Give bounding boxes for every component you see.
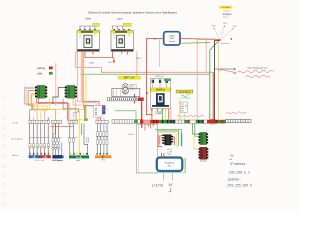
relay K1 body — [162, 134, 173, 145]
wire long salmon feeder (y72.3) — [76, 52, 213, 73]
fan distribution point — [218, 39, 220, 41]
aux terminal box — [181, 102, 188, 112]
svg-text:255. 255. 255. 0: 255. 255. 255. 0 — [226, 184, 252, 188]
gateway (blue rounded, bottom) — [157, 158, 183, 172]
wire red mid to group4 — [84, 101, 99, 119]
svg-text:gelb: gelb — [76, 160, 80, 162]
busbar BB1 (battery minus) — [107, 98, 136, 101]
svg-text:2x2,5qmm: 2x2,5qmm — [52, 160, 62, 162]
label yellow (battery monitor) — [176, 90, 193, 93]
main DC busbar red node — [140, 119, 143, 123]
wire yellow from shunt — [179, 99, 181, 121]
svg-text:(+12V): (+12V) — [152, 183, 164, 187]
main DC busbar right white section — [226, 119, 252, 122]
wire solar input bus — [79, 26, 99, 29]
label tag mains fuse (yellow) — [123, 23, 131, 26]
remote panel (blue rounded, top) — [164, 32, 180, 45]
svg-text:Masse: Masse — [12, 155, 19, 157]
wire dashed to busbar — [184, 112, 186, 120]
wire yellow vertical x86 — [85, 74, 87, 108]
inverter U3 (MultiPlus) — [150, 79, 170, 109]
svg-text:Steckdosen: Steckdosen — [221, 42, 230, 45]
svg-text:KL 15 gesch.: KL 15 gesch. — [11, 138, 23, 140]
wire red pair into gateway top — [162, 153, 164, 158]
wire blue drop group2 — [61, 142, 63, 155]
wire red loops K1 — [158, 134, 174, 147]
wire salmon AC feed — [197, 39, 206, 120]
svg-text:BATT 12V: BATT 12V — [124, 77, 135, 80]
main DC busbar light red section — [143, 120, 150, 123]
fuse row F1 (group1) — [29, 143, 50, 148]
wire black to shunt — [85, 106, 94, 120]
wire salmon pair mid — [81, 52, 84, 102]
wire red battery to busbar — [134, 94, 136, 104]
label tag solar fuse (yellow) — [93, 23, 100, 26]
svg-text:Subnet :: Subnet : — [228, 178, 241, 182]
fuse row F2 (group2) — [52, 138, 60, 149]
charger U2 terminals — [113, 29, 130, 31]
wire blue K1 — [181, 134, 183, 147]
terminal strip S4 (orange) — [95, 153, 111, 162]
wire yellow to X4 — [194, 136, 199, 149]
thin rail row — [29, 137, 50, 139]
svg-text:KL 30: KL 30 — [12, 122, 18, 124]
wire yellow loop K1 — [158, 133, 176, 148]
svg-text:230V out: 230V out — [155, 75, 163, 78]
connector X2 (green) — [65, 85, 77, 98]
node green on busbar — [134, 120, 138, 123]
connector X3 (green, right) — [199, 132, 209, 144]
wire gray staircase from X2 — [63, 99, 78, 121]
terminal row TR2 — [52, 120, 62, 123]
svg-text:26 polig: 26 polig — [200, 161, 206, 163]
wire green under gateway — [137, 172, 185, 174]
wire red stubs below busbar — [145, 124, 153, 131]
main DC busbar mixed section — [160, 119, 226, 123]
fuse rows F4 (group4) — [96, 132, 108, 145]
terminal strip S1 (blue/red) — [29, 153, 51, 162]
svg-text:Masse: Masse — [76, 157, 83, 159]
wire black branch arrow — [215, 68, 236, 70]
wire salmon from charger U2 to battery label — [136, 51, 138, 76]
handwriting tag top right (yellow) — [219, 6, 232, 9]
wire salmon vertical x55.5 — [55, 63, 57, 106]
wire green loop K1 — [155, 129, 181, 146]
svg-text:Multi: Multi — [170, 37, 175, 40]
wire blue group4 — [103, 123, 105, 155]
wire salmon riser to fan — [206, 39, 218, 72]
charger U1 terminals — [79, 29, 96, 31]
handwriting arrow — [169, 188, 171, 193]
svg-text:230V: 230V — [153, 39, 158, 41]
wire salmon right of U3 — [170, 109, 172, 120]
cabinet outline box — [137, 124, 158, 173]
wires group3 verticals — [70, 123, 88, 155]
svg-text:WoWa: WoWa — [128, 134, 135, 136]
shunt interface box (white) — [94, 106, 102, 117]
wire salmon loop (connector X1 staircase) — [24, 87, 44, 117]
charger U2 (Land 230V) — [111, 31, 133, 55]
wire green sloped from panel area — [181, 42, 210, 45]
wire long green LiMa line (y74) — [80, 73, 210, 75]
svg-text:Smart Shunt: Smart Shunt — [179, 91, 191, 94]
wire green pair to X3 — [193, 123, 200, 136]
wires group1 tops colored — [29, 118, 31, 121]
terminal row TR1 — [29, 120, 49, 123]
busbar BB1 red segment — [138, 98, 144, 101]
svg-text:Schema für autarke Stromversor: Schema für autarke Stromversorgung / geä… — [88, 11, 177, 14]
wire green shunt link — [115, 111, 136, 120]
svg-text:Digital: Digital — [169, 35, 175, 38]
node green tap — [84, 119, 88, 121]
handwriting Pi notes — [226, 154, 252, 187]
svg-text:Plus: Plus — [102, 160, 106, 162]
svg-text:4 5 6 . 2 m: 4 5 6 . 2 m — [35, 160, 44, 162]
wire yellow to fan — [218, 41, 219, 120]
battery label (yellow) — [118, 76, 141, 79]
svg-text:Kabel bisherige Länge 1,5 m: Kabel bisherige Länge 1,5 m — [248, 68, 268, 70]
handwriting red above busbar — [177, 115, 204, 117]
connector X1 (green) — [35, 85, 47, 98]
wire orange vertical from U1 — [84, 52, 86, 120]
fuse below U3 — [156, 111, 162, 114]
wire yellow jumper group3 — [70, 119, 86, 121]
wire gray loop X1 — [28, 91, 35, 118]
terminal row TR3 — [68, 120, 77, 123]
wire stub arrow right — [113, 58, 115, 63]
wire yellow loop X1 — [31, 94, 47, 118]
wire yellow drop x84.7 — [84, 110, 86, 119]
wire red to remote panel — [146, 38, 218, 41]
svg-text:Control: Control — [169, 40, 176, 43]
wire red bold busbar link — [141, 101, 143, 128]
wires below U3 — [151, 109, 153, 111]
wire yellow group3 — [78, 120, 80, 155]
handwriting green scribble — [181, 94, 190, 98]
svg-text:3x1,5: 3x1,5 — [223, 16, 227, 18]
terminal strip S2 (navy) — [52, 155, 64, 162]
wire orange loop X1 — [32, 95, 56, 138]
fuse row F3 (group3) — [69, 138, 89, 142]
svg-text:Land: Land — [117, 17, 123, 21]
wire mains input bus — [112, 26, 132, 29]
wire green right of blue box — [184, 158, 186, 173]
svg-text:Pi: Pi — [231, 154, 234, 158]
svg-text:2m: 2m — [108, 62, 111, 64]
main DC busbar red section — [150, 120, 159, 124]
connector X4 (dark red, right) — [199, 147, 209, 159]
handwriting red note (zur Bord-Elektrik) — [218, 70, 274, 78]
wire gray drop from panel — [158, 39, 160, 66]
svg-text:IP adress :: IP adress : — [230, 162, 247, 166]
wires below gateway — [164, 171, 173, 181]
svg-text:Raspberry: Raspberry — [165, 162, 174, 164]
svg-text:LiMa: LiMa — [37, 73, 43, 76]
main DC busbar (left white section) — [112, 120, 141, 124]
wire red battery feed — [146, 39, 152, 115]
wire green to fan — [210, 41, 219, 120]
dc-dc converter (purple) — [102, 105, 105, 114]
wire charger outputs red interconnect — [85, 51, 122, 57]
svg-text:192.168. x. x: 192.168. x. x — [229, 171, 250, 175]
wires group4 verticals — [97, 123, 107, 155]
terminal row TR4 — [96, 120, 108, 123]
svg-text:Ladung: Ladung — [37, 67, 46, 70]
charger U1 (Solar) — [77, 31, 99, 55]
svg-text:MultiPlus: MultiPlus — [156, 89, 166, 92]
wires group2 verticals — [53, 123, 59, 155]
svg-text:16´: 16´ — [168, 183, 174, 187]
wire yellow drop X1 — [50, 98, 85, 120]
wires group1 verticals — [30, 123, 49, 155]
wire red link under terminal row — [51, 126, 74, 128]
svg-text:wifi: wifi — [229, 159, 233, 161]
wire green into group3 — [81, 123, 83, 135]
handwriting red right of busbar — [226, 112, 247, 114]
terminal strip S3 (green) — [69, 153, 89, 162]
svg-text:2,5m: 2,5m — [89, 62, 94, 64]
svg-text:FI 30mA: FI 30mA — [222, 6, 230, 9]
fan rays (loads 230V) — [214, 25, 234, 40]
binder holes (decorative) — [2, 77, 5, 207]
wire red pair X1 to group3 (Ladung) — [37, 98, 69, 120]
battery B1 symbol — [112, 84, 140, 97]
svg-text:Solar: Solar — [85, 17, 91, 21]
wire salmon staircase from X2 — [73, 99, 85, 118]
wire black feed X2 — [53, 87, 65, 104]
wire red bold distribution — [212, 72, 214, 119]
wire black to fan — [214, 41, 219, 120]
